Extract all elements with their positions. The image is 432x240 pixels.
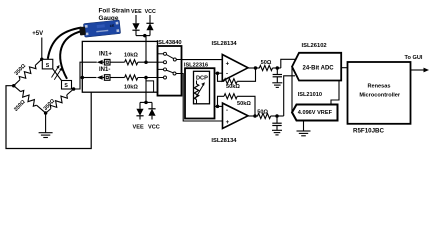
- cap bottom: [276, 116, 278, 123]
- switch 2 arm: [166, 70, 173, 73]
- VREF ground: [303, 121, 305, 132]
- switch 2 nc stub: [158, 68, 164, 70]
- svg-text:VEE: VEE: [131, 9, 142, 15]
- VREF to ADC wire: [291, 68, 293, 113]
- bridge bottom node: [44, 111, 48, 115]
- svg-text:S: S: [46, 63, 50, 69]
- foil strain gauge PCB: [79, 20, 121, 38]
- svg-text:IN1-: IN1-: [99, 67, 110, 73]
- bridge right node: [72, 87, 76, 91]
- diode to VCC bottom: [148, 102, 155, 119]
- clamp bar bottom: [140, 101, 152, 103]
- ground cap top: [272, 83, 282, 88]
- DCP pot arrow: [196, 85, 204, 99]
- node IN1- / clamp: [144, 76, 148, 80]
- svg-text:VCC: VCC: [145, 9, 156, 15]
- svg-text:CE: CE: [110, 24, 115, 28]
- junction dot board edge to IN1-: [81, 76, 85, 80]
- wire ADC to VREF right: [331, 81, 339, 105]
- amp1 output node: [254, 66, 258, 70]
- node B: [216, 105, 220, 109]
- clamp guard branch: [146, 81, 154, 92]
- +5V wire: [41, 38, 43, 60]
- svg-text:ISL43840: ISL43840: [157, 40, 182, 46]
- switch 1 common wire: [176, 59, 181, 61]
- svg-text:R5F10JBC: R5F10JBC: [353, 128, 384, 135]
- wire left node loop to board: [6, 86, 91, 149]
- bridge top node: [40, 57, 44, 61]
- resistor 350ohm top-left arm: [12, 57, 44, 88]
- cap top: [276, 68, 278, 75]
- node RC bottom: [275, 114, 279, 118]
- switch 1 wire in: [158, 61, 164, 63]
- switch 1 nc stub: [158, 53, 164, 55]
- strain gauge cable wire lower: [60, 31, 82, 79]
- resistor 50k amp2 feedback: [224, 94, 237, 99]
- node A: [216, 71, 220, 75]
- svg-text:ISL28134: ISL28134: [212, 41, 238, 47]
- svg-text:Foil Strain: Foil Strain: [99, 7, 130, 14]
- svg-text:350Ω: 350Ω: [13, 99, 27, 113]
- VREF 4.096V block: [292, 105, 338, 121]
- svg-text:10kΩ: 10kΩ: [124, 85, 138, 91]
- strain gauge cable wire upper: [48, 28, 82, 59]
- strain direction arrows: [52, 67, 62, 80]
- ground cap bottom: [272, 130, 282, 135]
- switch 1 arm: [166, 55, 173, 59]
- svg-text:+5V: +5V: [32, 31, 43, 37]
- op-amp U1 ISL28134 top: [222, 55, 248, 82]
- svg-text:DCP: DCP: [196, 75, 208, 81]
- amp2 feedback loop: [218, 96, 225, 106]
- svg-text:ISL21010: ISL21010: [298, 92, 322, 98]
- bridge ground: [45, 113, 47, 133]
- clamp bus bottom: [145, 78, 147, 103]
- ISL22316 DCP box: [185, 68, 215, 118]
- wire node A to amp1 -: [218, 72, 223, 74]
- svg-text:To GUI: To GUI: [405, 55, 423, 61]
- IN1+ plug connector: [97, 59, 125, 65]
- svg-text:ISL26102: ISL26102: [302, 43, 327, 49]
- wire node B to amp2 -: [218, 105, 223, 107]
- DCP inner box: [194, 71, 210, 104]
- wire ADC to MCU: [341, 67, 347, 69]
- wire to ADC upper input: [281, 59, 297, 68]
- resistor 10k upper: [125, 60, 138, 65]
- switch 2 wire in: [158, 77, 164, 79]
- resistor 50 bottom: [258, 113, 271, 118]
- bridge left node: [12, 84, 16, 88]
- op-amp U2 ISL28134 bottom: [223, 103, 249, 128]
- Renesas microcontroller box: [348, 62, 411, 124]
- wire S1 to S2: [53, 69, 62, 81]
- clamp bar top: [136, 35, 150, 37]
- strain gauge S2: [62, 81, 72, 90]
- resistor 350ohm bottom-left arm: [12, 83, 48, 115]
- switch 2 common wire: [176, 73, 182, 75]
- clamp bus top: [145, 36, 147, 63]
- svg-text:10kΩ: 10kΩ: [124, 53, 138, 59]
- node RC top: [276, 66, 280, 70]
- diode to VEE top: [132, 15, 139, 36]
- svg-text:50kΩ: 50kΩ: [237, 101, 251, 107]
- diode to VEE bottom: [136, 102, 143, 119]
- svg-text:24-Bit ADC: 24-Bit ADC: [303, 66, 335, 72]
- resistor 50k amp1 feedback: [224, 79, 237, 84]
- wire mux1 to amp1 +: [182, 59, 223, 61]
- svg-text:-: -: [226, 71, 228, 77]
- resistor 50 top: [259, 65, 272, 70]
- switch 2 contacts: [164, 68, 167, 71]
- svg-text:Microcontroller: Microcontroller: [359, 92, 401, 98]
- resistor 10k lower: [125, 75, 138, 80]
- svg-text:VEE: VEE: [133, 125, 144, 131]
- svg-text:S: S: [64, 83, 68, 89]
- wire right node to IN1+: [72, 62, 97, 89]
- strain gauge S1: [42, 59, 53, 69]
- wire board edge to IN1- plug: [82, 77, 96, 79]
- switch 1 contacts: [164, 52, 167, 55]
- DCP potentiometer: [196, 81, 198, 85]
- DCP terminal stub top: [215, 72, 218, 74]
- To GUI arrow: [411, 69, 426, 71]
- amp1 feedback loop: [218, 73, 225, 81]
- svg-text:IN1+: IN1+: [99, 51, 112, 57]
- resistor 350ohm bottom-right arm: [44, 87, 76, 116]
- svg-text:+: +: [226, 120, 230, 126]
- node IN1+ / clamp: [144, 60, 148, 64]
- IN1- plug connector: [97, 75, 125, 81]
- wire mux2 to amp2 +: [182, 74, 223, 122]
- svg-text:+: +: [226, 62, 230, 68]
- svg-text:50kΩ: 50kΩ: [226, 84, 240, 90]
- ISL43840 switch box: [158, 46, 182, 96]
- svg-text:ISL28134: ISL28134: [211, 138, 237, 144]
- svg-text:VCC: VCC: [148, 125, 160, 131]
- diode to VCC top: [146, 15, 153, 36]
- svg-text:4.096V VREF: 4.096V VREF: [298, 110, 333, 116]
- svg-text:Renesas: Renesas: [367, 83, 390, 89]
- input board box: [82, 41, 157, 92]
- wire to ADC lower input: [284, 76, 295, 116]
- amp2 output node: [253, 114, 257, 118]
- svg-text:-: -: [226, 108, 228, 114]
- ADC ISL26102 block: [292, 53, 341, 81]
- svg-text:50Ω: 50Ω: [261, 60, 272, 66]
- DCP terminal stub bottom: [215, 105, 218, 107]
